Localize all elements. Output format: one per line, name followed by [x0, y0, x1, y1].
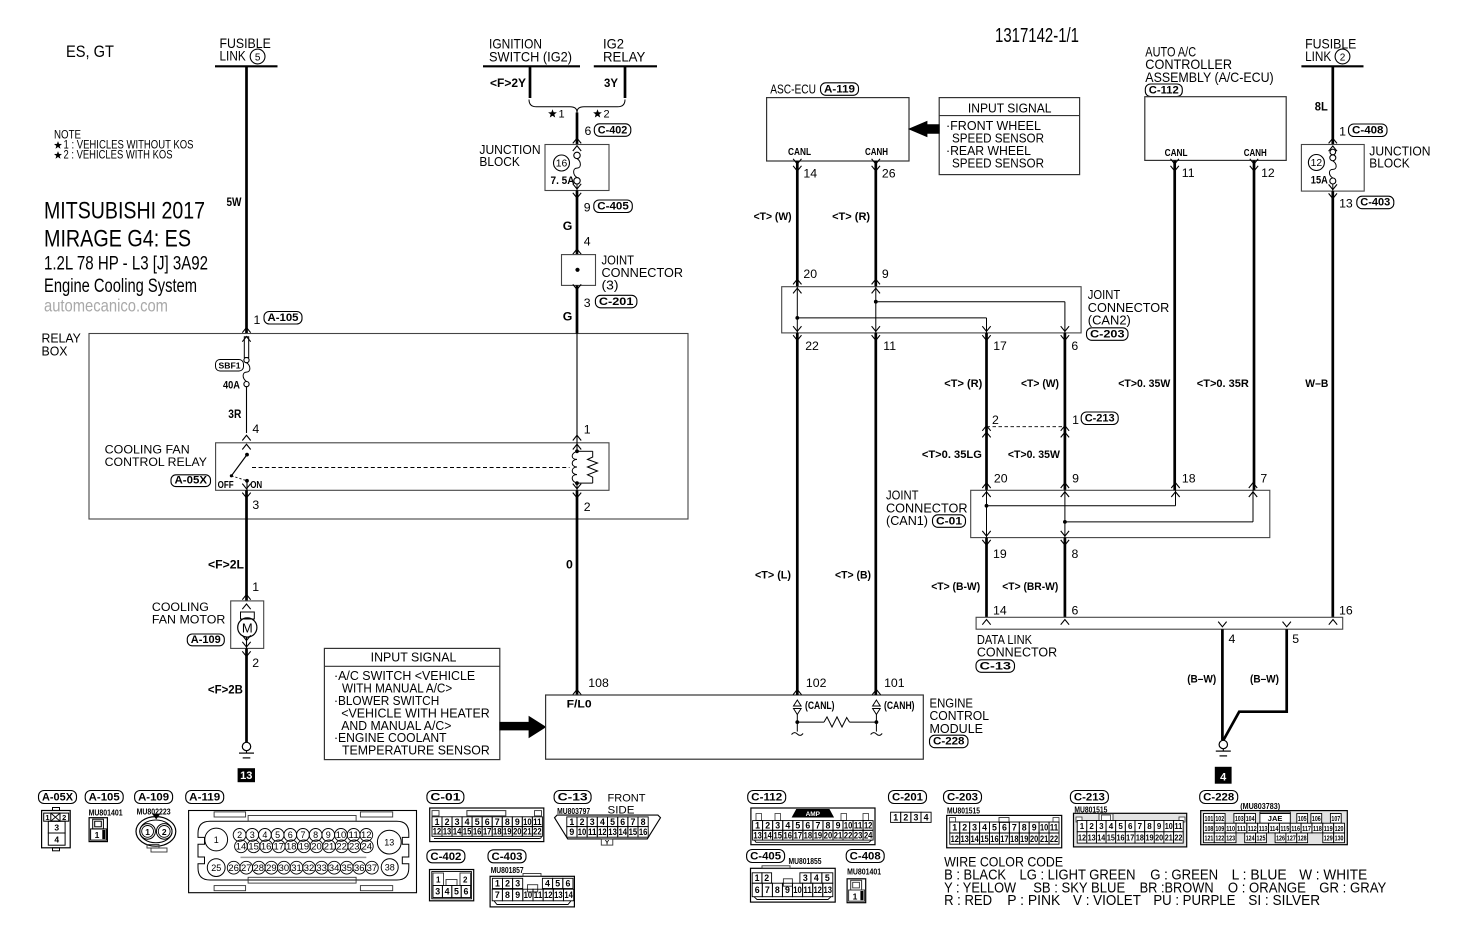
svg-text:<T>0. 35R: <T>0. 35R — [1197, 378, 1249, 390]
svg-text:3: 3 — [54, 823, 59, 833]
svg-text:13: 13 — [608, 827, 617, 837]
ASC-ECU pin 14 — [793, 159, 817, 181]
svg-text:Y: Y — [605, 839, 610, 846]
svg-text:6: 6 — [1072, 603, 1079, 617]
svg-text:<T> (W): <T> (W) — [754, 211, 792, 223]
svg-text:MU801401: MU801401 — [89, 807, 123, 817]
svg-text:3: 3 — [775, 821, 780, 831]
svg-text:34: 34 — [329, 863, 340, 873]
svg-text:127: 127 — [1287, 834, 1296, 843]
ignition switch IG2 label — [483, 35, 580, 66]
wire junction block to joint connector — [576, 191, 579, 255]
svg-text:8L: 8L — [1315, 100, 1328, 114]
svg-text:(B–W): (B–W) — [1187, 674, 1216, 686]
svg-text:C-228: C-228 — [1203, 792, 1234, 804]
svg-text:40A: 40A — [223, 379, 240, 391]
svg-text:5: 5 — [795, 821, 800, 831]
svg-text:14: 14 — [993, 603, 1007, 617]
engine control module box — [546, 695, 924, 759]
svg-text:2: 2 — [62, 813, 66, 822]
svg-text:4: 4 — [584, 234, 591, 248]
svg-text:3: 3 — [1099, 822, 1104, 831]
svg-text:12: 12 — [1078, 833, 1087, 842]
CAN2 pin 22 — [793, 326, 819, 353]
joint connector CAN2 label — [1088, 287, 1170, 328]
svg-text:17: 17 — [483, 827, 492, 837]
svg-text:6: 6 — [805, 821, 810, 831]
svg-text:16: 16 — [990, 834, 998, 844]
svg-text:<T>0. 35W: <T>0. 35W — [1008, 449, 1060, 461]
svg-text:4: 4 — [262, 830, 267, 840]
svg-text:6: 6 — [288, 830, 293, 840]
svg-text:129: 129 — [1324, 834, 1333, 843]
junction block 16 outline — [545, 145, 609, 191]
input signal callout box upper — [939, 98, 1079, 175]
connector A-05X pinout — [39, 791, 77, 851]
svg-text:2: 2 — [463, 876, 468, 885]
svg-text:2: 2 — [505, 879, 510, 889]
ASC-ECU pin 26 — [872, 159, 896, 181]
pin 1 connector C-408 — [1329, 124, 1387, 143]
svg-text:18: 18 — [804, 830, 813, 840]
svg-text:AMP: AMP — [806, 811, 821, 818]
svg-text:15: 15 — [629, 827, 638, 837]
svg-text:33: 33 — [316, 863, 327, 873]
svg-text:101: 101 — [1205, 814, 1214, 823]
svg-text:3: 3 — [435, 887, 440, 897]
svg-text:<F>2L: <F>2L — [208, 558, 244, 572]
junction block exit chevrons — [573, 193, 581, 198]
svg-text:BLOCK: BLOCK — [1369, 157, 1410, 171]
pin 9 connector C-405 — [584, 200, 633, 215]
label star1 — [548, 109, 557, 117]
svg-text:3: 3 — [515, 879, 520, 889]
svg-text:108: 108 — [588, 676, 609, 690]
svg-text:W–B: W–B — [1305, 378, 1328, 390]
junction block 12 outline — [1301, 145, 1364, 192]
svg-text:20: 20 — [803, 267, 817, 281]
svg-text:18: 18 — [286, 842, 297, 852]
svg-text:4: 4 — [1220, 771, 1227, 783]
connector C-213 crossing — [982, 412, 1118, 437]
auto A/C controller label — [1145, 43, 1273, 85]
svg-text:2: 2 — [445, 817, 450, 827]
connector C-01 pinout — [427, 791, 544, 842]
svg-text:2 : VEHICLES WITH KOS: 2 : VEHICLES WITH KOS — [64, 149, 173, 161]
svg-text:17: 17 — [1126, 833, 1135, 842]
svg-text:1: 1 — [254, 313, 261, 327]
svg-text:Engine Cooling System: Engine Cooling System — [44, 276, 197, 297]
svg-text:11: 11 — [1050, 823, 1058, 833]
wire DLC 4 to ground — [1221, 629, 1224, 740]
connector C-403 pinout — [488, 850, 574, 907]
svg-text:9: 9 — [569, 827, 574, 837]
svg-text:CANL: CANL — [1165, 148, 1189, 159]
svg-text:CANH: CANH — [865, 147, 888, 158]
svg-text:14: 14 — [453, 827, 462, 837]
wire inside relay box to coil — [576, 334, 578, 443]
ECM CANL input pin 102 — [792, 676, 835, 735]
ASC-ECU label — [770, 82, 816, 97]
svg-text:21: 21 — [324, 842, 335, 852]
tag C-13 — [976, 660, 1015, 673]
svg-text:36: 36 — [354, 863, 365, 873]
ASC-ECU box — [767, 98, 909, 161]
wire CAN2-22 to ECM 102 — [796, 333, 799, 695]
svg-text:7. 5A: 7. 5A — [551, 175, 575, 187]
svg-text:8: 8 — [641, 817, 646, 827]
svg-text:9: 9 — [836, 821, 841, 831]
svg-text:19: 19 — [814, 830, 823, 840]
svg-text:19: 19 — [503, 827, 512, 837]
svg-text:11: 11 — [883, 339, 896, 353]
svg-text:4: 4 — [982, 823, 987, 833]
svg-text:1: 1 — [1072, 413, 1079, 427]
svg-text:6: 6 — [485, 817, 490, 827]
joint connector CAN2 box — [782, 287, 1081, 333]
svg-text:9: 9 — [1072, 471, 1079, 485]
svg-text:9: 9 — [1157, 822, 1162, 831]
svg-text:<T> (B): <T> (B) — [835, 570, 871, 582]
connector A-105 pinout — [85, 791, 123, 842]
svg-text:7: 7 — [765, 885, 770, 895]
svg-text:C-01: C-01 — [430, 792, 460, 804]
ground G13 — [242, 742, 250, 750]
svg-text:R : RED: R : RED — [944, 893, 992, 909]
svg-text:10: 10 — [336, 830, 347, 840]
CAN1 pin 9 — [1061, 471, 1079, 497]
svg-text:10: 10 — [524, 890, 533, 900]
svg-text:5: 5 — [610, 817, 615, 827]
svg-text:2: 2 — [604, 109, 610, 121]
svg-text:GR : GRAY: GR : GRAY — [1319, 880, 1386, 896]
svg-text:2: 2 — [252, 656, 259, 670]
svg-text:19: 19 — [299, 842, 310, 852]
svg-text:26: 26 — [228, 863, 239, 873]
svg-text:14: 14 — [763, 830, 772, 840]
svg-text:24: 24 — [362, 842, 373, 852]
svg-text:3Y: 3Y — [604, 76, 618, 90]
pin 3 connector C-201 — [573, 284, 637, 310]
svg-text:JAE: JAE — [1268, 814, 1283, 823]
svg-text:109: 109 — [1215, 824, 1224, 833]
svg-text:4: 4 — [54, 835, 59, 845]
svg-text:6: 6 — [1128, 822, 1133, 831]
svg-text:8: 8 — [313, 830, 318, 840]
IG2 relay label — [594, 35, 657, 66]
CAN2 pin 9 — [872, 267, 889, 294]
svg-text:13: 13 — [1088, 833, 1097, 842]
svg-text:20: 20 — [1030, 834, 1038, 844]
svg-text:9: 9 — [882, 267, 889, 281]
pin 13 connector C-403 — [1339, 196, 1394, 210]
cooling fan control relay box — [216, 443, 609, 491]
svg-text:27: 27 — [241, 863, 252, 873]
svg-text:1: 1 — [1080, 822, 1085, 831]
svg-text:16: 16 — [556, 158, 568, 170]
svg-text:P : PINK: P : PINK — [1007, 893, 1060, 909]
svg-text:102: 102 — [1215, 814, 1224, 823]
svg-text:6: 6 — [585, 124, 592, 138]
svg-text:MU801857: MU801857 — [491, 865, 524, 875]
pin 4 joint connector — [573, 234, 591, 254]
svg-text:5: 5 — [275, 830, 280, 840]
svg-text:113: 113 — [1259, 824, 1268, 833]
svg-text:15: 15 — [248, 842, 259, 852]
fuse SBF1 40A — [243, 337, 250, 433]
svg-text:<T> (R): <T> (R) — [944, 378, 982, 390]
svg-text:17: 17 — [1000, 834, 1008, 844]
svg-text:MIRAGE G4: ES: MIRAGE G4: ES — [44, 226, 191, 253]
svg-text:14: 14 — [236, 842, 247, 852]
A/C pin 11 — [1171, 159, 1195, 180]
input signal callout box lower — [324, 648, 499, 759]
wire relay to cooling fan motor — [245, 490, 248, 601]
black arrow to ASC-ECU — [909, 121, 939, 136]
svg-text:14: 14 — [564, 890, 573, 900]
svg-text:21: 21 — [834, 830, 843, 840]
svg-text:1: 1 — [495, 879, 500, 889]
svg-text:A-109: A-109 — [191, 634, 221, 646]
svg-text:A-109: A-109 — [138, 792, 169, 804]
svg-text:15A: 15A — [1311, 175, 1328, 187]
svg-text:C-213: C-213 — [1085, 413, 1115, 425]
svg-text:19: 19 — [993, 547, 1007, 561]
svg-text:101: 101 — [884, 676, 905, 690]
svg-text:1: 1 — [584, 422, 591, 436]
svg-text:5: 5 — [1118, 822, 1123, 831]
svg-text:1: 1 — [853, 891, 858, 901]
tag A-109 — [187, 634, 224, 646]
svg-text:1: 1 — [214, 835, 219, 845]
svg-text:1: 1 — [559, 109, 565, 121]
svg-text:17: 17 — [794, 830, 803, 840]
relay pin 3 — [242, 484, 259, 512]
svg-text:INPUT SIGNAL: INPUT SIGNAL — [371, 650, 457, 665]
auto A/C controller box — [1145, 97, 1286, 161]
svg-text:15: 15 — [980, 834, 988, 844]
svg-text:3: 3 — [803, 873, 808, 883]
svg-text:1: 1 — [435, 817, 440, 827]
svg-text:12: 12 — [951, 834, 959, 844]
svg-text:3: 3 — [584, 296, 591, 310]
svg-text:G: G — [563, 219, 573, 233]
data link connector box — [976, 617, 1343, 629]
svg-text:13: 13 — [554, 890, 563, 900]
svg-text:<T> (R): <T> (R) — [832, 211, 870, 223]
wire CANL ASC-ECU to CAN2 — [796, 161, 799, 287]
svg-text:1: 1 — [893, 812, 898, 822]
CAN1 pin 18 — [1171, 471, 1195, 497]
svg-text:23: 23 — [349, 842, 360, 852]
svg-text:22: 22 — [844, 830, 853, 840]
ECM CANH input pin 101 — [871, 676, 915, 735]
svg-text:<F>2B: <F>2B — [208, 683, 243, 697]
svg-text:20: 20 — [824, 830, 833, 840]
svg-text:5: 5 — [992, 823, 997, 833]
connector C-203 pinout — [944, 791, 1062, 848]
label star2 — [593, 109, 602, 117]
svg-text:C-112: C-112 — [1149, 85, 1179, 97]
svg-text:FAN MOTOR: FAN MOTOR — [152, 613, 226, 627]
svg-text:16: 16 — [1339, 603, 1353, 617]
svg-text:35: 35 — [341, 863, 352, 873]
svg-text:2: 2 — [237, 830, 242, 840]
svg-text:<T>0. 35LG: <T>0. 35LG — [922, 449, 982, 461]
svg-text:12: 12 — [864, 821, 873, 831]
tag C-112 — [1145, 84, 1182, 97]
wire 8L fusible link 2 to junction block — [1331, 66, 1334, 144]
joint connector CAN1 label — [886, 488, 968, 529]
svg-text:21: 21 — [1165, 833, 1174, 842]
svg-text:4: 4 — [924, 812, 929, 822]
svg-text:4: 4 — [1229, 632, 1236, 646]
svg-text:17: 17 — [993, 339, 1007, 353]
svg-text:V : VIOLET: V : VIOLET — [1073, 893, 1141, 909]
svg-text:1: 1 — [45, 813, 49, 822]
svg-text:8: 8 — [505, 890, 510, 900]
svg-text:16: 16 — [639, 827, 648, 837]
svg-text:C-203: C-203 — [1090, 328, 1125, 340]
svg-text:5: 5 — [454, 887, 459, 897]
svg-text:C-01: C-01 — [936, 515, 962, 527]
svg-text:3: 3 — [252, 498, 259, 512]
wire DLC 5 to ground — [1224, 629, 1287, 740]
svg-text:7: 7 — [495, 890, 500, 900]
relay pin 2 — [573, 484, 591, 514]
svg-text:CONNECTOR: CONNECTOR — [977, 645, 1057, 660]
pin 1 connector A-105 — [242, 312, 302, 342]
svg-text:18: 18 — [1136, 833, 1145, 842]
CAN1 pin 8 — [1061, 531, 1079, 561]
svg-text:(CAN1): (CAN1) — [886, 513, 928, 528]
svg-text:<T> (BR-W): <T> (BR-W) — [1002, 581, 1058, 593]
svg-text:1: 1 — [252, 580, 259, 594]
svg-text:2: 2 — [162, 827, 167, 837]
svg-text:3: 3 — [972, 823, 977, 833]
svg-text:111: 111 — [1237, 824, 1246, 833]
svg-text:11: 11 — [854, 821, 863, 831]
relay pin 1 — [573, 422, 591, 449]
svg-text:CONTROL RELAY: CONTROL RELAY — [105, 455, 207, 469]
svg-text:1: 1 — [755, 821, 760, 831]
ground ref 13 black box — [238, 768, 255, 782]
svg-text:3: 3 — [250, 830, 255, 840]
svg-text:20: 20 — [311, 842, 322, 852]
svg-text:SWITCH (IG2): SWITCH (IG2) — [489, 49, 572, 65]
svg-text:4: 4 — [545, 879, 550, 889]
svg-text:0: 0 — [566, 558, 573, 572]
svg-text:CANL: CANL — [788, 147, 812, 158]
svg-text:6: 6 — [1002, 823, 1007, 833]
svg-text:7: 7 — [300, 830, 305, 840]
svg-text:SPEED SENSOR: SPEED SENSOR — [952, 156, 1044, 171]
svg-text:126: 126 — [1276, 834, 1285, 843]
junction block label left — [479, 143, 540, 169]
svg-text:C-402: C-402 — [430, 851, 461, 863]
svg-text:2: 2 — [1089, 822, 1094, 831]
connector C-213 pinout — [1070, 791, 1186, 847]
wire CANH ASC-ECU to CAN2 — [874, 161, 877, 287]
svg-text:12: 12 — [544, 890, 553, 900]
wire A/C CANL to CAN1-18 — [1173, 160, 1176, 490]
svg-text:8: 8 — [1022, 823, 1027, 833]
svg-text:12: 12 — [598, 827, 607, 837]
svg-text:ASC-ECU: ASC-ECU — [770, 82, 816, 97]
wire color code legend — [944, 853, 1387, 909]
connector C-13 pinout — [554, 791, 660, 847]
relay coil with resistor — [572, 443, 597, 491]
svg-text:117: 117 — [1302, 824, 1311, 833]
svg-text:29: 29 — [266, 863, 277, 873]
relay dashed actuation line — [252, 467, 570, 469]
svg-text:C-13: C-13 — [980, 660, 1012, 672]
motor pin 2 — [242, 642, 259, 670]
fusible link 2 — [1301, 36, 1363, 67]
svg-text:LINK: LINK — [220, 48, 247, 64]
cooling fan motor label — [152, 600, 226, 627]
CAN2 pin 6 — [1061, 326, 1079, 353]
svg-text:18: 18 — [1010, 834, 1018, 844]
svg-text:16: 16 — [261, 842, 272, 852]
svg-text:1: 1 — [145, 827, 150, 837]
svg-text:119: 119 — [1324, 824, 1333, 833]
svg-text:10: 10 — [793, 885, 802, 895]
svg-text:ASSEMBLY (A/C-ECU): ASSEMBLY (A/C-ECU) — [1145, 69, 1273, 85]
svg-text:7: 7 — [630, 817, 635, 827]
svg-text:3: 3 — [913, 812, 918, 822]
svg-text:17: 17 — [273, 842, 284, 852]
cooling fan control relay label — [105, 443, 207, 470]
svg-text:21: 21 — [523, 827, 532, 837]
CAN1 pin 20 — [982, 471, 1007, 497]
ground ref 4 black box — [1215, 767, 1232, 784]
svg-text:F/L0: F/L0 — [567, 699, 592, 711]
svg-text:9: 9 — [1032, 823, 1037, 833]
svg-text:C-228: C-228 — [933, 736, 965, 748]
svg-text:C-403: C-403 — [1360, 197, 1390, 209]
svg-text:14: 14 — [1097, 833, 1106, 842]
svg-text:6: 6 — [620, 817, 625, 827]
wire motor to ground — [245, 648, 248, 742]
svg-text:6: 6 — [755, 885, 760, 895]
wire 5W fusible link to relay box — [245, 66, 248, 333]
svg-text:11: 11 — [533, 817, 542, 827]
relay box label — [42, 331, 82, 359]
svg-text:7: 7 — [1138, 822, 1143, 831]
svg-text:13: 13 — [443, 827, 452, 837]
svg-text:106: 106 — [1312, 814, 1321, 823]
connector C-408 pinout — [846, 850, 884, 903]
junction block label right — [1369, 145, 1430, 171]
black arrow to ECM — [500, 717, 546, 738]
svg-text:1: 1 — [436, 876, 441, 885]
svg-text:110: 110 — [1226, 824, 1235, 833]
svg-text:LINK: LINK — [1305, 48, 1332, 64]
svg-text:7: 7 — [495, 817, 500, 827]
svg-text:15: 15 — [463, 827, 472, 837]
svg-text:C-203: C-203 — [947, 792, 978, 804]
svg-text:RELAY: RELAY — [603, 49, 646, 65]
connector C-405 pinout — [747, 850, 836, 903]
svg-text:7: 7 — [815, 821, 820, 831]
svg-text:<T> (L): <T> (L) — [755, 570, 791, 582]
CAN2 pin 11 — [872, 326, 897, 353]
svg-text:22: 22 — [533, 827, 542, 837]
svg-text:11: 11 — [534, 890, 543, 900]
connector C-201 pinout — [889, 791, 932, 823]
svg-text:20: 20 — [513, 827, 522, 837]
